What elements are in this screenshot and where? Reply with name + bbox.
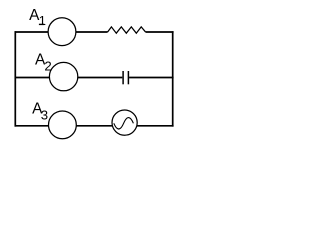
- wire top branch middle: [76, 31, 108, 33]
- wire bottom branch middle: [76, 125, 112, 127]
- wire top branch right: [145, 31, 173, 33]
- wire top branch left: [15, 31, 49, 33]
- wire bottom branch left: [15, 125, 49, 127]
- svg-text:1: 1: [39, 13, 46, 28]
- wire middle branch middle: [78, 77, 123, 79]
- label A2: [35, 52, 52, 74]
- wire left vertical: [14, 31, 16, 126]
- capacitor plate 2: [127, 71, 129, 84]
- capacitor plate 1: [122, 71, 124, 84]
- label A3: [32, 100, 48, 122]
- label A1: [29, 7, 46, 28]
- ammeter A3: [49, 111, 77, 139]
- wire middle branch left: [15, 77, 50, 79]
- wire right vertical: [172, 31, 174, 126]
- resistor R: [108, 27, 146, 33]
- ammeter A2: [49, 62, 77, 90]
- wire bottom branch right: [137, 125, 174, 127]
- svg-text:2: 2: [44, 59, 51, 74]
- ammeter A1: [48, 18, 76, 46]
- ac source V: [112, 110, 137, 135]
- ac source sine wave: [114, 118, 134, 129]
- wire middle branch right: [129, 77, 174, 79]
- svg-text:3: 3: [41, 108, 48, 123]
